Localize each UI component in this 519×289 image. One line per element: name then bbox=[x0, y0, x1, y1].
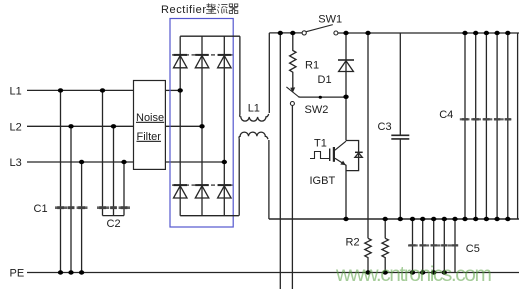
wire L3 phase line bbox=[27, 161, 134, 163]
svg-text:Rectifier: Rectifier bbox=[161, 4, 206, 16]
svg-text:T1: T1 bbox=[314, 138, 327, 150]
switch SW1 left contact bbox=[302, 31, 306, 35]
capacitor C4 leg4 bbox=[496, 33, 498, 219]
switch SW1 blade bbox=[306, 25, 333, 32]
junction dots SW2 line bbox=[319, 95, 349, 99]
svg-text:IGBT: IGBT bbox=[310, 175, 336, 187]
diode D1 cathode bar bbox=[338, 59, 354, 61]
wire SW2 to D1 node bbox=[298, 96, 346, 99]
rectifier block blue box bbox=[170, 19, 233, 228]
transistor T1 emitter diagonal bbox=[335, 158, 346, 165]
capacitor C1 leg1 wire bbox=[60, 90, 62, 272]
wire SW2 lower contact down (long, to bottom edge) bbox=[291, 106, 293, 289]
diode D-bot3 bbox=[218, 185, 232, 198]
rectifier column 3 wire bbox=[223, 36, 225, 216]
transistor T1 gate bar bbox=[329, 149, 331, 162]
wire freewheel diode branch bottom bbox=[346, 153, 359, 171]
wire L1 phase line bbox=[27, 89, 134, 91]
resistor R2b bbox=[382, 238, 388, 272]
capacitor C2 plates bbox=[97, 206, 130, 209]
svg-text:L1: L1 bbox=[248, 103, 260, 115]
rectifier block label chinese 整 bbox=[206, 3, 216, 13]
svg-text:C3: C3 bbox=[378, 121, 392, 133]
resistor R1 bbox=[290, 33, 296, 90]
capacitor C1 leg2 wire bbox=[70, 126, 72, 272]
diode D-top2 bbox=[195, 55, 209, 68]
svg-text:D1: D1 bbox=[318, 74, 332, 86]
transistor T1 collector diagonal bbox=[335, 141, 346, 150]
svg-text:L3: L3 bbox=[10, 157, 22, 169]
wire IGBT emitter down to negative bus bbox=[345, 165, 347, 219]
switch SW1 right contact bbox=[334, 31, 338, 35]
wire right edge vertical bbox=[517, 33, 519, 219]
rectifier block label chinese 器 bbox=[229, 4, 238, 14]
wire D1 branch from rail bbox=[345, 33, 347, 97]
capacitor C2 common bracket wire bbox=[103, 215, 125, 217]
svg-text:C2: C2 bbox=[107, 218, 121, 230]
wire R2a feed from top rail bbox=[367, 33, 369, 238]
diode D-bot1 bbox=[174, 185, 188, 198]
capacitor C4 leg3 bbox=[485, 33, 487, 219]
svg-text:L1: L1 bbox=[10, 85, 22, 97]
capacitor C2 leg1 wire bbox=[102, 90, 104, 215]
gate pulse symbol bbox=[310, 152, 330, 159]
diode D-bot2 bbox=[195, 185, 209, 198]
wire rectifier top bus down to choke bbox=[239, 36, 241, 114]
junction dots top rail bbox=[278, 31, 511, 35]
svg-text:Noise: Noise bbox=[136, 112, 164, 124]
noise filter U1 box bbox=[134, 81, 166, 170]
wire DC plus tap vertical (long, to bottom edge) bbox=[279, 33, 281, 289]
wire L2 phase line bbox=[27, 125, 134, 127]
switch SW2 arrow tip bbox=[290, 87, 295, 92]
diode D-top1 bbox=[174, 55, 188, 68]
wire PE line bbox=[27, 272, 519, 274]
wire noise filter to rectifier phase1 bbox=[165, 89, 180, 91]
wire freewheel diode branch top bbox=[346, 141, 359, 153]
wire choke top winding up to rail bbox=[268, 33, 270, 113]
wire choke bottom winding down to negative bus bbox=[268, 140, 270, 219]
capacitor C3 bottom wire bbox=[399, 139, 401, 219]
diode D1 triangle bbox=[339, 61, 354, 72]
wire DC negative bus bbox=[269, 218, 519, 220]
freewheel diode triangle bbox=[355, 153, 362, 157]
junction dots negative bus bbox=[343, 217, 510, 221]
svg-text:www.cntronics.com: www.cntronics.com bbox=[335, 263, 492, 286]
rectifier bottom bus wire bbox=[180, 215, 239, 217]
junction dots phase lines bbox=[58, 88, 227, 164]
capacitor C3 plates bbox=[391, 135, 409, 139]
svg-text:C1: C1 bbox=[34, 203, 48, 215]
capacitor C5 leg1 bbox=[412, 219, 414, 273]
wire D1 node down to IGBT collector bbox=[345, 97, 347, 140]
junction dots PE rail bbox=[58, 270, 447, 274]
svg-text:SW1: SW1 bbox=[318, 13, 342, 25]
rectifier column 1 wire bbox=[179, 36, 181, 216]
resistor R2a bbox=[365, 238, 371, 272]
svg-text:C4: C4 bbox=[439, 109, 453, 121]
rectifier bottom diode row dashed bar bbox=[172, 184, 233, 186]
wire top rail right segment bbox=[338, 32, 519, 34]
svg-text:R2: R2 bbox=[346, 237, 360, 249]
inductor L1 bottom winding bbox=[239, 132, 268, 139]
svg-text:Filter: Filter bbox=[137, 131, 162, 143]
capacitor C4 plates bbox=[460, 118, 512, 120]
switch SW2 lower contact bbox=[290, 102, 294, 106]
capacitor C5 leg2 bbox=[422, 219, 424, 273]
capacitor C4 leg1 bbox=[464, 33, 466, 219]
resistor R2b top wire bbox=[384, 219, 386, 238]
capacitor C5 leg3 bbox=[433, 219, 435, 273]
rectifier column 2 wire bbox=[201, 36, 203, 216]
freewheel diode cathode bar bbox=[355, 151, 363, 153]
capacitor C5 leg4 bbox=[443, 219, 445, 273]
wire noise filter to rectifier phase3 bbox=[165, 161, 224, 163]
capacitor C2 leg2 wire bbox=[113, 126, 115, 215]
rectifier top bus wire bbox=[180, 35, 240, 37]
transistor T1 emitter arrow bbox=[340, 161, 346, 166]
capacitor C4 leg2 bbox=[475, 33, 477, 219]
svg-text:C5: C5 bbox=[466, 243, 480, 255]
svg-text:PE: PE bbox=[10, 267, 25, 279]
rectifier block label chinese 流 bbox=[217, 4, 227, 13]
wire noise filter to rectifier phase2 bbox=[165, 125, 202, 127]
capacitor C5 leg5 bbox=[454, 219, 456, 273]
capacitor C5 plates bbox=[408, 244, 458, 246]
svg-text:R1: R1 bbox=[305, 60, 319, 72]
wire top rail left segment bbox=[269, 32, 302, 34]
diode D-top3 bbox=[218, 55, 232, 68]
capacitor C2 leg3 wire bbox=[123, 162, 125, 216]
inductor L1 top winding bbox=[240, 114, 269, 121]
wire rectifier bottom bus up to choke bbox=[238, 139, 240, 216]
capacitor C1 plates bbox=[55, 206, 88, 209]
transistor T1 body bar bbox=[333, 147, 335, 162]
switch SW2 blade bbox=[286, 87, 298, 97]
rectifier top diode row dashed bar bbox=[172, 54, 233, 56]
svg-text:SW2: SW2 bbox=[305, 104, 329, 116]
capacitor C1 leg3 wire bbox=[81, 162, 83, 273]
capacitor C4 leg5 bbox=[507, 33, 509, 219]
svg-text:L2: L2 bbox=[10, 121, 22, 133]
capacitor C3 top wire bbox=[399, 33, 401, 135]
